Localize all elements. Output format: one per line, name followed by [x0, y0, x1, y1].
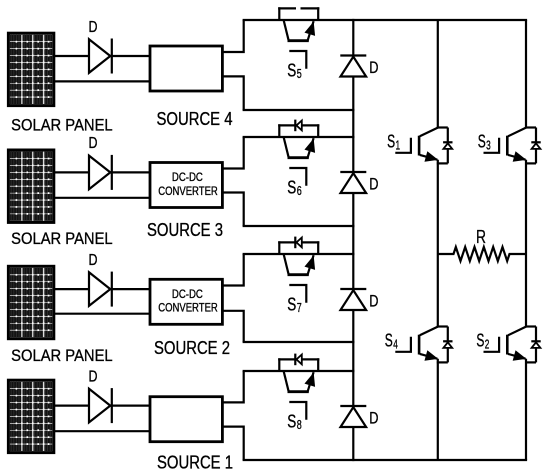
svg-text:S: S: [476, 330, 484, 350]
svg-text:D: D: [89, 135, 98, 152]
wire source 2 negative rail: [243, 341, 355, 343]
svg-text:CONVERTER: CONVERTER: [158, 301, 218, 315]
svg-text:5: 5: [297, 66, 302, 81]
wire panel 3 positive: [53, 171, 151, 173]
svg-text:S: S: [287, 60, 296, 80]
wire S6 row to bus: [243, 136, 355, 138]
svg-text:2: 2: [485, 336, 490, 351]
wire H-bridge left leg lower: [437, 359, 439, 460]
svg-text:7: 7: [297, 300, 302, 315]
wire source 2 positive output to switch S7: [221, 254, 243, 286]
wire source 3 negative output to bus: [221, 193, 243, 227]
solar panel PV4: [8, 33, 53, 105]
source block SOURCE 1 box: [150, 397, 222, 442]
wire source 4 negative rail: [243, 109, 355, 111]
svg-text:1: 1: [396, 137, 401, 152]
wire bus vertical segment: [352, 426, 354, 461]
label S3: [478, 131, 491, 152]
svg-text:DC-DC: DC-DC: [172, 170, 203, 184]
diode D (bus diode 3): [340, 289, 366, 310]
svg-text:SOURCE 2: SOURCE 2: [154, 338, 230, 358]
svg-text:3: 3: [486, 137, 491, 152]
diode D (source 1 blocking): [89, 388, 112, 423]
svg-text:D: D: [369, 410, 378, 428]
wire S8 row to bus: [243, 370, 355, 372]
wire H-bridge left leg upper: [437, 20, 439, 129]
transistor S3 (H-bridge IGBT): [484, 128, 541, 164]
transistor S2 (H-bridge IGBT): [484, 327, 541, 363]
diode D (source 2 blocking): [89, 272, 112, 307]
svg-text:6: 6: [297, 183, 302, 198]
svg-text:D: D: [369, 293, 378, 311]
wire panel 4 positive: [53, 55, 151, 57]
wire H-bridge right leg upper: [525, 20, 527, 129]
diode D (source 3 blocking): [89, 155, 112, 190]
svg-text:D: D: [369, 176, 378, 194]
svg-text:DC-DC: DC-DC: [172, 287, 203, 301]
svg-text:CONVERTER: CONVERTER: [158, 184, 218, 198]
wire source 1 negative output to bus: [221, 427, 243, 460]
wire panel 4 negative: [53, 80, 151, 82]
wire source 3 negative rail: [243, 225, 355, 227]
transistor S1 (H-bridge IGBT): [395, 128, 452, 164]
wire bus vertical segment: [352, 309, 354, 407]
source block SOURCE 2 box: [150, 279, 222, 324]
switch S8 (IGBT with bypass): [278, 354, 319, 420]
wire bus vertical segment: [352, 75, 354, 173]
svg-text:D: D: [89, 252, 98, 269]
wire panel 1 positive: [53, 405, 151, 407]
label S7: [287, 294, 301, 315]
label S4: [385, 330, 398, 351]
label S5: [287, 60, 301, 81]
svg-text:S: S: [385, 330, 393, 350]
switch S6 (IGBT with bypass): [278, 120, 319, 186]
svg-text:D: D: [369, 59, 378, 77]
svg-text:SOURCE 4: SOURCE 4: [157, 109, 233, 129]
svg-text:4: 4: [393, 336, 398, 351]
switch S7 (IGBT with bypass): [278, 237, 319, 303]
wire source 1 positive output to switch S8: [221, 371, 243, 402]
wire source 2 negative output to bus: [221, 311, 243, 342]
source block SOURCE 4 box: [150, 46, 222, 91]
label S2: [476, 330, 489, 351]
solar panel PV3: [8, 150, 53, 222]
solar panel PV2: [8, 266, 53, 338]
svg-text:SOURCE 3: SOURCE 3: [147, 220, 223, 240]
svg-text:R: R: [476, 227, 486, 247]
svg-text:8: 8: [297, 417, 302, 432]
svg-text:S: S: [287, 177, 296, 197]
svg-text:D: D: [89, 368, 98, 385]
wire panel 2 negative: [53, 313, 151, 315]
label S1: [387, 131, 400, 152]
wire source 4 negative output to bus: [221, 76, 243, 110]
wire panel 2 positive: [53, 288, 151, 290]
svg-text:D: D: [89, 19, 98, 36]
wire H-bridge left leg middle: [437, 160, 439, 328]
diode D (source 4 blocking): [89, 39, 112, 74]
wire H-bridge right leg lower: [525, 359, 527, 460]
diode D (bus diode 1): [340, 56, 366, 77]
switch S5 (IGBT with bypass): [278, 7, 319, 68]
wire panel 3 negative: [53, 197, 151, 199]
wire bus vertical segment: [352, 192, 354, 290]
solar panel PV1: [8, 380, 53, 452]
wire top rail (S5 row / H-bridge top): [243, 19, 527, 21]
wire source 3 positive output to switch S6: [221, 137, 243, 169]
wire H-bridge right leg middle: [525, 160, 527, 328]
wire bottom rail (source 1 negative / H-bridge bottom): [243, 459, 527, 461]
svg-text:S: S: [387, 131, 395, 151]
diode D (bus diode 2): [340, 172, 366, 193]
svg-text:SOLAR PANEL: SOLAR PANEL: [11, 230, 113, 248]
wire bus vertical segment: [352, 19, 354, 57]
svg-text:S: S: [287, 294, 296, 314]
source block SOURCE 3 box: [150, 163, 222, 208]
svg-text:SOLAR PANEL: SOLAR PANEL: [11, 116, 113, 134]
svg-text:SOLAR PANEL: SOLAR PANEL: [11, 347, 113, 365]
label S8: [287, 411, 301, 432]
svg-text:SOURCE 1: SOURCE 1: [157, 452, 233, 472]
svg-text:S: S: [287, 411, 296, 431]
wire source 4 positive output to switch S5: [221, 20, 243, 52]
wire panel 1 negative: [53, 430, 151, 432]
svg-text:S: S: [478, 131, 486, 151]
wire S7 row to bus: [243, 253, 355, 255]
diode D (bus diode 4): [340, 406, 366, 427]
transistor S4 (H-bridge IGBT): [395, 327, 452, 363]
label S6: [287, 177, 301, 198]
resistor R: [438, 247, 526, 261]
